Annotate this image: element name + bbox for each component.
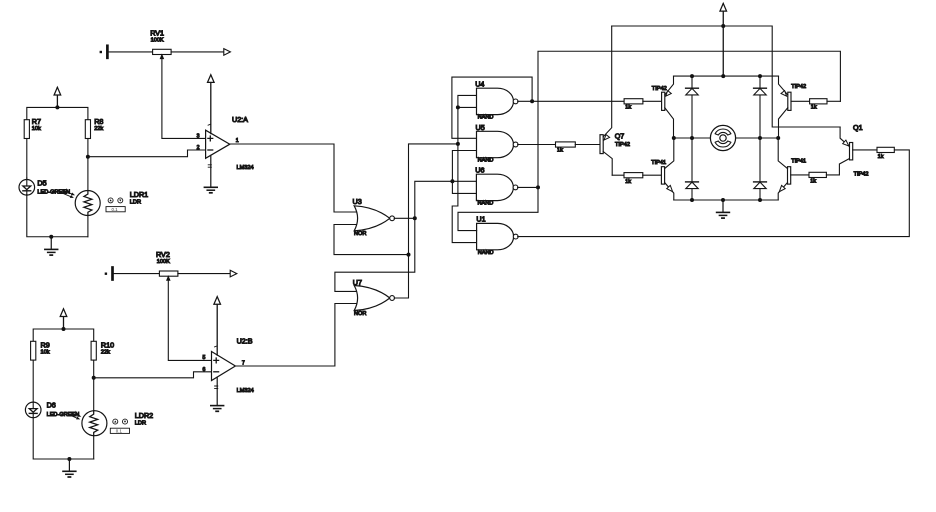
wire LDR2 to ground rail [93,436,95,459]
svg-text:10k: 10k [32,126,41,132]
transistor Q7 TIP42 PNP driver [600,26,612,175]
op-amp U2:B LM324 [212,352,236,381]
node junction ground rail 1 [49,235,53,239]
svg-text:NAND: NAND [478,201,494,207]
resistor 1k Q1 base [877,147,894,152]
svg-text:U2:B: U2:B [237,336,253,345]
LDR2 interactive control buttons [113,419,128,424]
wire top rail sensor block 2 [33,329,93,341]
node junctions motor rail [672,136,780,140]
LDR2 value box 0.1 [110,428,129,433]
wire LDR1 to ground rail [87,216,89,237]
wire R8 to LDR1 [87,139,89,191]
diode D6 LED-GREEN [25,402,41,418]
svg-text:U3: U3 [353,197,362,206]
svg-text:0.1: 0.1 [116,429,123,434]
wire U2:B output to U7 input B [235,304,358,367]
ground sensor block 2 [63,459,76,477]
nand gate U1 [477,223,518,249]
resistor 1k Q7 collector to T3 base [612,173,661,178]
LDR1 interactive control buttons [108,198,123,203]
transistor Q1 TIP42 PNP driver [840,127,877,160]
ground op-amp U2:A pin 11 [204,155,217,192]
wire U6 output to feedback rail and U1 input A [458,51,840,230]
op-amp U2:A LM324 [206,130,230,158]
wire divider1 to op-amp inverting input [88,150,206,157]
svg-text:100K: 100K [151,37,164,43]
node junction U4 output [530,99,534,103]
node junction U4 input B [456,105,460,109]
wire U5 output to Q7 base resistor [518,144,556,146]
power arrow terminal RV2 [230,270,237,277]
photoresistor LDR1 [75,191,100,216]
svg-text:D6: D6 [47,401,56,410]
wire R9 to D6 [32,360,34,402]
svg-text:LM324: LM324 [237,165,254,171]
diode flyback top-right [754,76,767,138]
svg-text:NAND: NAND [478,158,494,164]
svg-text:U7: U7 [353,278,362,287]
svg-text:1k: 1k [810,179,816,185]
potentiometer RV1 [108,49,223,58]
power terminal V+ op-amp U2:A pin 4 [208,75,215,134]
svg-text:Q1: Q1 [853,123,863,132]
svg-text:2: 2 [197,145,200,151]
motor M1 [674,125,778,150]
svg-text:U5: U5 [476,123,485,132]
transistor TIP41 bottom-left NPN [661,138,673,200]
ground bar terminal RV2 [105,267,114,281]
power arrow terminal RV1 [224,49,231,56]
node junction U6 input A tie [450,179,454,183]
svg-text:1k: 1k [557,148,563,154]
svg-text:NOR: NOR [354,311,366,317]
diode flyback top-left [686,76,699,138]
node junction U3 output on feedback column [413,216,417,220]
svg-text:D5: D5 [37,178,46,187]
node junction VCC column top rail [721,24,725,28]
wire R10 to LDR2 [93,360,95,411]
power terminal V+ op-amp U2:B pin 4 [214,297,221,356]
potentiometer RV2 [114,271,231,280]
node junction R8-LDR1 divider [86,155,90,159]
wire U6 output stub [518,186,538,188]
wire U4 output to base resistor [518,100,624,102]
photoresistor LDR2 [82,411,107,436]
svg-text:LDR: LDR [130,199,141,205]
resistor R10 [91,341,96,360]
diode D5 LED-GREEN [19,178,35,195]
svg-text:100K: 100K [157,259,170,265]
wire RV1 wiper to op-amp noninverting input [162,55,206,139]
svg-text:R7: R7 [32,117,41,126]
node junction VCC rail 2 [62,327,66,331]
svg-text:TIP41: TIP41 [791,159,806,165]
node junction U3 input B on column [407,253,411,257]
resistor R8 [85,120,90,139]
svg-text:NAND: NAND [478,250,494,256]
svg-text:3: 3 [197,133,200,139]
svg-text:NAND: NAND [478,115,494,121]
transistor TIP41 bottom-right NPN [778,138,809,200]
nand gate U6 [476,174,517,200]
wire U7 input A feedback [335,181,453,291]
light arrows into LDR2 [69,412,81,419]
svg-text:5: 5 [203,355,206,361]
wire top rail sensor block 1 [27,107,88,119]
svg-text:U6: U6 [475,166,484,175]
power terminal VCC sensor block 1 [54,87,61,107]
transistor TIP42 top-left PNP [662,76,674,138]
nor gate U3 [354,206,394,231]
svg-text:1k: 1k [878,154,884,160]
svg-text:0.1: 0.1 [112,207,119,212]
wire U6 input A stub [452,180,476,182]
diode flyback bottom-right [754,138,767,200]
wire U2:A output to U3 input A [230,144,359,212]
svg-text:6: 6 [203,367,206,373]
wire VCC top rail [612,26,840,127]
svg-text:RV2: RV2 [156,250,170,259]
svg-text:R9: R9 [41,341,50,350]
resistor 1k U4 output to T1 base [624,99,662,104]
node junction VCC rail 1 [55,105,59,109]
svg-text:U2:A: U2:A [232,115,248,124]
svg-text:LDR2: LDR2 [135,411,153,420]
node junction feedback into U4 column [456,142,460,146]
ground sensor block 1 [45,237,58,255]
wire RV2 wiper to op-amp noninverting input [168,276,211,360]
wire divider2 to op-amp inverting input [94,372,212,378]
wire H-bridge upper rail [674,75,779,77]
svg-text:TIP42: TIP42 [652,86,667,92]
ground bar terminal RV1 [100,45,109,59]
resistor 1k top-right TIP42 base [810,99,841,104]
svg-text:LDR: LDR [135,421,146,427]
svg-text:22k: 22k [94,126,103,132]
resistor R7 [24,120,29,139]
svg-text:U4: U4 [475,80,484,89]
resistor 1k bottom-right TIP41 base [809,159,850,178]
svg-text:1k: 1k [625,104,631,110]
nand gate U5 [477,131,518,157]
power terminal VCC H-bridge [720,3,727,76]
svg-text:TIP42: TIP42 [791,84,806,90]
node junction R10-LDR2 divider [92,376,96,380]
svg-text:1k: 1k [625,179,631,185]
wire bottom rail sensor block 2 [33,418,93,459]
resistor 1k U5 output to Q7 base [556,142,601,147]
wire U4 output feedback over gate to U5 input A [452,77,532,138]
svg-text:TIP42: TIP42 [854,171,869,177]
nand gate U4 [477,88,518,114]
svg-text:U1: U1 [476,215,485,224]
svg-text:R8: R8 [94,117,103,126]
wire R7 to D5 [26,139,28,179]
resistor R9 [31,341,36,360]
svg-text:1: 1 [236,138,239,144]
wire U4 inputs tie [452,95,476,242]
wire U7 output to cross-coupled column [394,144,458,298]
svg-text:1k: 1k [811,104,817,110]
wire U5 input B to U6 input A tie [452,151,476,194]
wire U3 output [394,217,415,219]
LDR1 value box 0.1 [106,207,125,212]
svg-text:RV1: RV1 [150,29,164,38]
svg-text:NOR: NOR [354,231,366,237]
ground op-amp U2:B pin 11 [211,377,224,411]
svg-text:TIP42: TIP42 [615,142,630,148]
nor gate U7 [354,286,394,311]
node junctions ground rail [690,198,762,202]
svg-text:R10: R10 [101,341,114,350]
power terminal VCC sensor block 2 [60,309,67,329]
svg-text:Q7: Q7 [615,132,625,141]
node junction U6 output [536,185,540,189]
ground H-bridge [717,200,730,218]
node junction ground rail 2 [67,457,71,461]
node junctions upper rail [690,74,762,78]
transistor TIP42 top-right PNP [779,76,810,138]
wire U4 input B stub [458,106,477,108]
svg-text:10k: 10k [41,350,50,356]
wire H-bridge ground rail [674,199,778,201]
wire U3 input B feedback [334,225,409,255]
diode flyback bottom-left [686,138,699,200]
wire U1 output to Q1 base network [518,150,910,237]
svg-text:LDR1: LDR1 [130,190,148,199]
light arrows into LDR1 [63,191,75,198]
svg-text:22k: 22k [101,350,110,356]
svg-text:LM324: LM324 [237,388,254,394]
svg-text:TIP41: TIP41 [651,160,666,166]
wire bottom rail sensor block 1 [27,195,88,237]
